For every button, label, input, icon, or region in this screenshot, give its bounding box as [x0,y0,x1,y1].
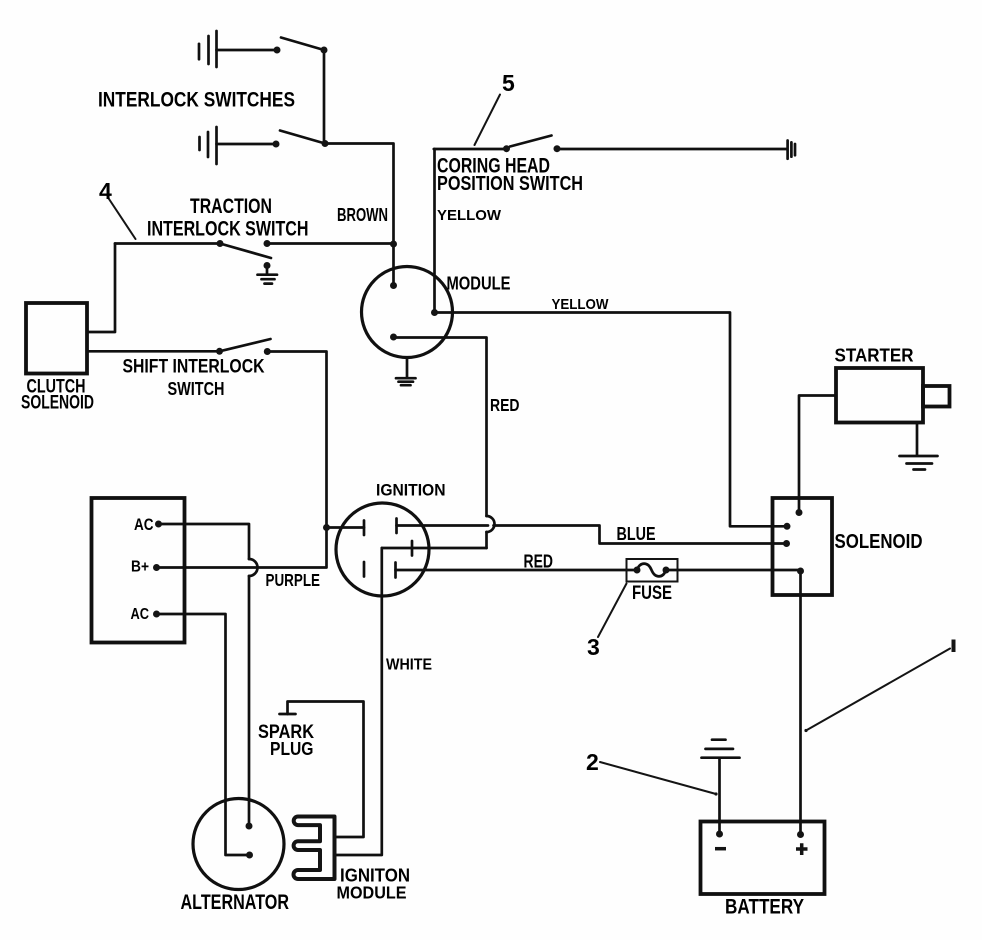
svg-text:IGNITION: IGNITION [376,482,446,500]
svg-text:MODULE: MODULE [447,274,511,294]
svg-text:YELLOW: YELLOW [437,207,502,224]
svg-text:INTERLOCK SWITCHES: INTERLOCK SWITCHES [98,89,295,112]
svg-text:YELLOW: YELLOW [552,296,610,313]
svg-text:BATTERY: BATTERY [725,896,804,919]
svg-text:STARTER: STARTER [835,346,914,366]
svg-text:WHITE: WHITE [386,657,432,674]
svg-text:BLUE: BLUE [617,524,656,544]
svg-text:PURPLE: PURPLE [266,570,321,590]
svg-text:BROWN: BROWN [337,205,388,225]
svg-text:5: 5 [502,70,515,96]
svg-text:3: 3 [587,634,600,660]
svg-text:2: 2 [586,749,599,775]
svg-text:INTERLOCK SWITCH: INTERLOCK SWITCH [147,217,309,241]
svg-text:AC: AC [134,516,154,534]
svg-text:RED: RED [524,552,554,572]
svg-text:B+: B+ [131,559,149,576]
svg-text:SWITCH: SWITCH [168,379,225,399]
svg-text:PLUG: PLUG [270,739,314,759]
svg-text:FUSE: FUSE [632,583,672,604]
svg-text:ALTERNATOR: ALTERNATOR [181,890,290,914]
svg-text:MODULE: MODULE [337,883,407,903]
svg-text:SOLENOID: SOLENOID [21,393,94,414]
svg-text:SHIFT INTERLOCK: SHIFT INTERLOCK [123,357,265,378]
svg-text:4: 4 [99,178,112,204]
svg-text:RED: RED [490,395,520,415]
svg-text:TRACTION: TRACTION [190,194,272,218]
svg-text:AC: AC [131,606,150,623]
svg-text:SOLENOID: SOLENOID [835,530,923,553]
svg-text:POSITION SWITCH: POSITION SWITCH [437,172,583,195]
